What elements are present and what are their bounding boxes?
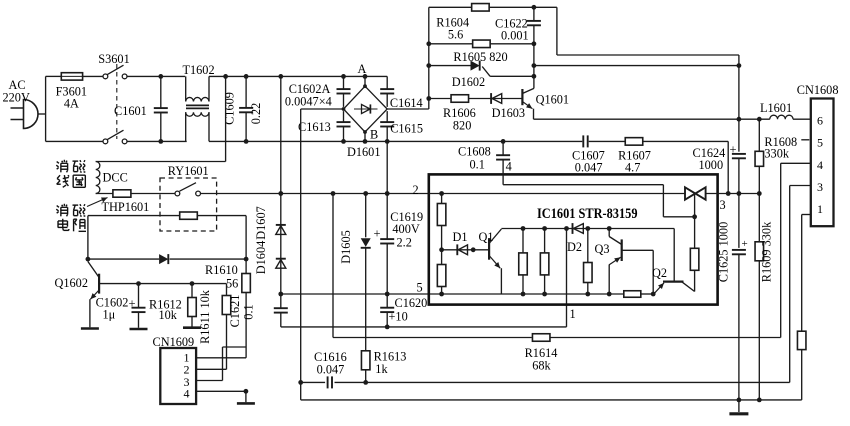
svg-text:Q1601: Q1601 [536, 93, 569, 107]
transistor Q1602 [98, 274, 100, 294]
svg-text:+10: +10 [389, 310, 408, 324]
svg-text:2: 2 [413, 183, 419, 197]
switch S3601 link dashed [116, 64, 118, 139]
inductor L1601 [770, 115, 793, 119]
svg-text:1: 1 [570, 307, 576, 321]
ground Q1602 [81, 327, 99, 330]
svg-text:C1613: C1613 [298, 120, 331, 134]
svg-text:T1602: T1602 [183, 63, 215, 77]
svg-text:C1601: C1601 [114, 104, 147, 118]
svg-text:56: 56 [226, 277, 238, 291]
svg-text:R1609 330k: R1609 330k [760, 221, 774, 282]
relay coil RY1601 box [180, 212, 198, 219]
wire Q1602 base row [99, 283, 226, 285]
node R1610 top [244, 257, 249, 262]
node CN1609 pin4 [244, 389, 249, 394]
svg-text:RY1601: RY1601 [168, 164, 209, 178]
svg-text:C1614: C1614 [390, 96, 423, 110]
node C1620 bottom [385, 325, 390, 330]
wire IC pin1 riser [566, 229, 568, 327]
diode D1605 vertical [365, 194, 367, 238]
wire left vertex to AC tap vertical [301, 108, 344, 110]
svg-text:0.1: 0.1 [241, 304, 255, 319]
capacitor C1619 electrolytic [386, 194, 388, 240]
node rail 280.8 [278, 191, 283, 196]
svg-text:D2: D2 [567, 240, 582, 254]
node row 544.6 [542, 226, 547, 231]
node pin4 Q2 junction [692, 214, 697, 219]
wire relay coil left riser to Q1602 collector [87, 216, 89, 260]
node C1601 bottom [158, 139, 163, 144]
capacitor C1616 [327, 376, 329, 388]
feedback rail pin1 wire [281, 326, 567, 328]
node D1602 to C1622 [532, 74, 537, 79]
internal resistor Rb lower left [441, 250, 443, 265]
diode on collector row [159, 254, 168, 264]
node rail 653.2 [651, 292, 656, 297]
node rail pin2 entry [439, 191, 444, 196]
svg-text:5: 5 [817, 136, 823, 150]
node R1613 bottom [363, 380, 368, 385]
node B vertex [363, 130, 367, 134]
svg-text:3: 3 [720, 198, 726, 212]
pin4 internal wire [502, 174, 504, 184]
diode D2 [572, 223, 574, 234]
svg-text:C1608: C1608 [458, 145, 491, 159]
internal resistor Rc [522, 229, 524, 253]
R1614 rail [333, 337, 532, 339]
resistor R1604 row [429, 6, 472, 8]
degauss coil DCC [96, 162, 100, 194]
capacitor C1622 [533, 7, 535, 21]
wire relay coil right riser to R1610 [245, 216, 247, 260]
node 738.9 y65 [737, 63, 742, 68]
wire CN1609 pin3 [196, 380, 222, 382]
svg-text:Q1602: Q1602 [55, 276, 88, 290]
svg-text:D1: D1 [453, 230, 468, 244]
resistor R1607 [625, 138, 643, 146]
wire CN1609 pin2 [196, 368, 226, 370]
svg-text:C1615: C1615 [390, 122, 423, 136]
internal resistor Rf (Q2 collector) [694, 217, 696, 249]
node 343.5 top [341, 74, 346, 79]
connector CN1609 [160, 348, 196, 404]
svg-text:D1605: D1605 [339, 230, 353, 263]
node D chain 293.7 [278, 292, 283, 297]
wire CN1608 pin1 [802, 214, 811, 216]
node rail 544.6 [542, 292, 547, 297]
internal top row wire (Q1 collector to Q2 base) [501, 228, 674, 230]
svg-text:4: 4 [817, 158, 823, 172]
svg-text:D1603: D1603 [492, 106, 525, 120]
svg-text:+: + [742, 238, 748, 250]
svg-text:C1620: C1620 [395, 296, 428, 310]
relay RY1601 contact [175, 191, 180, 196]
capacitor C1620 electrolytic [386, 294, 388, 308]
fuse F3601 [61, 73, 82, 80]
svg-text:Q3: Q3 [595, 242, 610, 256]
ground CN1609 pin4 [237, 402, 255, 405]
wire 300.7 to bottom rail [300, 382, 302, 400]
node rail 365.7 [363, 191, 368, 196]
wire degauss riser from top line [225, 76, 227, 161]
svg-text:1k: 1k [375, 362, 388, 376]
node +B 738.9 [737, 117, 742, 122]
capacitor C1601 [160, 76, 162, 108]
wire switch to transformer top [127, 75, 185, 77]
node C1619 bottom [385, 292, 390, 297]
node A vertex [363, 84, 367, 88]
+B rail Q1601 emitter to CN1608 pin6 [534, 118, 770, 120]
AC plug [24, 100, 39, 129]
wire A stub [364, 76, 366, 86]
svg-text:D1602: D1602 [452, 75, 485, 89]
node left vertex [342, 107, 346, 111]
Q3 base wire [622, 249, 654, 251]
wire switch to C1601 bottom [46, 140, 104, 142]
node 280.8 top [278, 74, 283, 79]
wire C1625 section [738, 194, 740, 248]
svg-text:THP1601: THP1601 [102, 200, 150, 214]
node row 523 [521, 226, 526, 231]
C1622 line continue [533, 44, 535, 89]
capacitor C1625 [732, 249, 746, 251]
transistor Q1 [473, 249, 489, 251]
node 246.1 bottom [244, 139, 249, 144]
capacitor C1602 [138, 284, 140, 308]
svg-text:0.001: 0.001 [501, 29, 529, 43]
bridge rectifier D1601 diamond [344, 86, 388, 132]
node A riser top [363, 74, 368, 79]
node Ra mid [439, 247, 444, 252]
wire Q1602 collector row with diode [88, 258, 159, 260]
capacitor C1608 [502, 141, 504, 155]
svg-text:0.0047×4: 0.0047×4 [285, 95, 332, 109]
wire ladder bottom to bridge right vertex [428, 99, 430, 110]
wire source rail left (THP/relay to IC pin 2) [96, 193, 113, 195]
wire CN1608 pin4 [781, 162, 811, 164]
internal resistor Ra upper left [441, 194, 443, 204]
svg-text:+: + [374, 227, 381, 241]
node rail 759.3 [757, 191, 762, 196]
node rail 728.2 [726, 191, 731, 196]
svg-text:0.22: 0.22 [249, 103, 263, 125]
svg-text:68k: 68k [532, 359, 551, 373]
switch S3601 top pole [103, 74, 108, 79]
resistor R1611 [226, 284, 228, 296]
node ladder 43.8 [426, 41, 431, 46]
wire bottom line transformer to C1608 [209, 140, 503, 142]
wire CN1608 pin3 [790, 185, 811, 187]
diode D1 [456, 244, 458, 255]
svg-text:400V: 400V [392, 222, 419, 236]
long wire y65 to right [534, 65, 739, 67]
capacitor C1609 [245, 76, 247, 108]
node ladder 98.5 [426, 96, 431, 101]
node row 566.5 [564, 226, 569, 231]
svg-text:5.6: 5.6 [448, 28, 463, 42]
relay coil wire [88, 215, 246, 217]
svg-text:C1609: C1609 [223, 92, 237, 125]
emitter rail pin5 wire [281, 293, 624, 295]
bridge left vertical with caps [343, 76, 345, 89]
node 387 bottom [385, 139, 390, 144]
transformer T1602 bottom winding [185, 112, 187, 141]
node bottom 738.9 [737, 398, 742, 403]
node 246.1 top [244, 74, 249, 79]
svg-text:A: A [358, 62, 367, 76]
wire CN1609 pin1 [196, 357, 246, 359]
svg-text:4: 4 [184, 387, 190, 401]
node rail 523 [521, 292, 526, 297]
bottom rail [301, 399, 802, 401]
diode D1602 row [429, 65, 471, 67]
node ladder 65.6 [426, 63, 431, 68]
wire top line transformer to bridge corner [209, 75, 387, 77]
transistor Q2 [663, 281, 684, 283]
svg-text:0.047: 0.047 [317, 363, 345, 377]
connector CN1608 [811, 99, 834, 227]
wire top line to fuse [46, 75, 62, 77]
resistor on CN1608 pin1 wire [797, 331, 806, 349]
transistor Q3 [608, 229, 610, 237]
svg-text:4.7: 4.7 [625, 161, 640, 175]
svg-text:820: 820 [453, 119, 471, 133]
resistor R1609 [755, 242, 764, 261]
wire degauss top horizontal [96, 161, 226, 163]
svg-text:Q1: Q1 [479, 230, 494, 244]
svg-text:CN1608: CN1608 [797, 83, 839, 97]
wire bridge right vertical continue to rail [386, 141, 388, 193]
svg-text:CN1609: CN1609 [153, 335, 195, 349]
ground C1602 [130, 328, 148, 331]
svg-text:+: + [129, 297, 136, 311]
label degauss resistor chinese xiao ci / dian zu [57, 206, 59, 208]
C1616 rail [301, 381, 325, 383]
node 300.7 C1616 rail [298, 380, 303, 385]
node C1601 top [158, 74, 163, 79]
svg-text:DCC: DCC [103, 171, 128, 185]
node rail 738.9 [737, 191, 742, 196]
node 65.6 on C1622 line [532, 63, 537, 68]
resistor R1614 [532, 334, 550, 342]
label degauss coil chinese xiao ci / xian quan [57, 162, 59, 164]
diode D1603 [468, 98, 522, 100]
bridge right vertical with caps C1614 C1615 [386, 76, 388, 89]
diode D1 wire [442, 249, 474, 251]
node R1604 right [532, 5, 537, 10]
bridge internal diode [354, 108, 378, 110]
node rail 609.2 [607, 292, 612, 297]
svg-text:0.047: 0.047 [575, 161, 603, 175]
long snubber wire turn down to source rail [727, 141, 729, 193]
diode D1607 [276, 224, 286, 226]
svg-text:B: B [370, 128, 378, 142]
resistor R1610 [245, 259, 247, 274]
node row 609.2 [607, 226, 612, 231]
node R1605 right [532, 41, 537, 46]
svg-text:S3601: S3601 [98, 52, 129, 66]
resistor R1613 [361, 351, 370, 370]
svg-text:3: 3 [817, 180, 823, 194]
svg-text:D1601: D1601 [347, 145, 380, 159]
wire fuse to switch [83, 75, 104, 77]
node rail 587.8 [585, 292, 590, 297]
wire R1614 riser [332, 194, 334, 338]
R1608 R1609 vertical [758, 119, 760, 151]
bowtie to Q2 collector resistor wire [694, 194, 696, 217]
node base C1602 [136, 281, 141, 286]
capacitor C1624 [732, 153, 746, 155]
C1624 C1625 vertical [738, 66, 740, 152]
switch S3601 bottom pole [103, 139, 108, 144]
node bottom 759.3 [757, 398, 762, 403]
node base R1612 [190, 281, 195, 286]
svg-text:330k: 330k [764, 147, 789, 161]
svg-text:IC1601 STR-83159: IC1601 STR-83159 [537, 206, 638, 222]
svg-text:0.1: 0.1 [470, 158, 485, 172]
svg-text:220V: 220V [3, 91, 30, 105]
node 225.6 top [223, 74, 228, 79]
arrow THP pointer [87, 198, 108, 207]
svg-text:D1604: D1604 [254, 241, 268, 274]
svg-text:L1601: L1601 [760, 101, 792, 115]
node collector row left [86, 257, 91, 262]
wire top step to right [534, 6, 557, 8]
node C1608 [501, 139, 506, 144]
resistor R1608 [755, 151, 764, 166]
svg-text:R1611 10k: R1611 10k [198, 289, 212, 344]
resistor R1606 row [429, 98, 452, 100]
resistor R1612 [191, 284, 193, 298]
svg-text:4: 4 [506, 160, 512, 174]
svg-text:R1610: R1610 [205, 263, 238, 277]
resistor on emitter rail in IC [624, 291, 641, 298]
ground R1612 [183, 326, 201, 329]
thermistor THP1601 [113, 190, 131, 197]
node B riser bottom [363, 139, 368, 144]
svg-text:2.2: 2.2 [397, 236, 412, 250]
svg-text:1μ: 1μ [103, 308, 116, 322]
node rail 387.2 [385, 191, 390, 196]
node D1 anode [471, 247, 476, 252]
transformer T1602 top winding [185, 76, 187, 101]
snubber wire from C1608 node [503, 140, 582, 142]
svg-text:6: 6 [817, 114, 823, 128]
node +B 759.3 [757, 117, 762, 122]
capacitor C1621 [274, 307, 288, 309]
node rail 441.6 [439, 292, 444, 297]
transformer T1602 core [186, 104, 209, 106]
resistor R1605 row [429, 43, 473, 45]
svg-text:C1625 1000: C1625 1000 [717, 222, 731, 282]
IC1601 box [429, 174, 718, 304]
R1608 pin5 dash [801, 139, 809, 141]
svg-text:1000: 1000 [699, 158, 724, 172]
node 343.5 bottom [341, 139, 346, 144]
transistor Q1601 [521, 89, 523, 105]
relay RY1601 dashed box [160, 178, 217, 231]
svg-text:D1607: D1607 [254, 206, 268, 239]
wire B stub [364, 132, 366, 141]
ladder vertical left [428, 7, 430, 98]
internal resistor Rd [544, 229, 546, 253]
svg-text:C1621: C1621 [228, 295, 242, 328]
AC tap vertical 300.7 [300, 109, 302, 382]
wire THP to relay contact [131, 193, 175, 195]
wire relay contact to rail east [201, 193, 429, 195]
source rail inside IC [429, 193, 685, 195]
node row 587.8 [585, 226, 590, 231]
bidirectional zener on source rail [685, 187, 695, 199]
diode chain vertical D1607 D1604 [280, 76, 282, 307]
svg-text:10k: 10k [159, 308, 178, 322]
internal resistor Re (D2 node) [587, 229, 589, 263]
svg-text:5: 5 [417, 281, 423, 295]
svg-text:1: 1 [817, 202, 823, 216]
ground bottom rail [738, 400, 740, 412]
wire R1609 section [758, 194, 760, 242]
wire plug to lines [38, 113, 46, 115]
svg-text:Q2: Q2 [652, 266, 667, 280]
capacitor C1607 [582, 135, 584, 147]
diode D1604 [276, 258, 286, 260]
svg-text:4A: 4A [64, 97, 79, 111]
wire CN1609 pin4 [196, 390, 246, 392]
node rail 333 [331, 191, 336, 196]
svg-text:+: + [730, 143, 737, 157]
